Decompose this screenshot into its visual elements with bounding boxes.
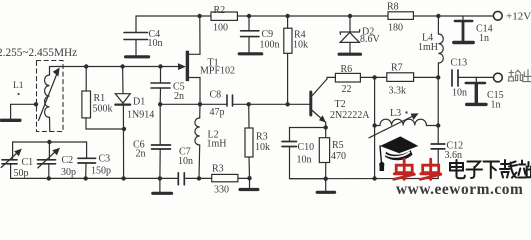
node T1 source / L2 bbox=[198, 102, 202, 106]
node D2 on rail bbox=[348, 14, 352, 18]
resistor R3 10k (vertical) bbox=[245, 104, 270, 178]
svg-text:R8: R8 bbox=[387, 2, 399, 13]
svg-text:22: 22 bbox=[342, 84, 352, 95]
node crystal/C2 top bbox=[47, 140, 51, 144]
capacitor C5 bbox=[151, 67, 185, 105]
svg-text:2n: 2n bbox=[136, 149, 146, 160]
variable inductor L3 bbox=[369, 108, 438, 138]
svg-text:330: 330 bbox=[214, 185, 229, 196]
ground under C6 bbox=[153, 178, 172, 193]
电 bbox=[450, 160, 465, 178]
node D1 bottom bbox=[121, 176, 125, 180]
node R1 top bbox=[84, 64, 88, 68]
svg-text:10n: 10n bbox=[297, 155, 312, 166]
svg-text:1N914: 1N914 bbox=[127, 110, 154, 121]
capacitor C14 bbox=[454, 16, 493, 44]
node R7/L4/C13 junction bbox=[436, 75, 440, 79]
svg-text:500k: 500k bbox=[93, 104, 113, 115]
node C5 top bbox=[158, 64, 162, 68]
node R6/R7 junction bbox=[372, 75, 376, 79]
svg-text:30p: 30p bbox=[61, 167, 76, 178]
svg-text:150p: 150p bbox=[91, 166, 111, 177]
node C9 on rail bbox=[247, 14, 251, 18]
zener diode D2 bbox=[339, 16, 380, 54]
node L3 left bbox=[372, 123, 376, 127]
svg-text:R5: R5 bbox=[332, 140, 344, 151]
terminal output bbox=[494, 73, 503, 82]
svg-text:D1: D1 bbox=[133, 97, 145, 108]
wire gate rail bbox=[61, 66, 178, 68]
svg-text:MPF102: MPF102 bbox=[200, 66, 235, 77]
resistor R5 470 bbox=[319, 138, 346, 163]
node R3/ground bbox=[247, 176, 251, 180]
svg-text:10k: 10k bbox=[293, 40, 308, 51]
node D1 top bbox=[120, 64, 124, 68]
capacitor C9 bbox=[239, 16, 279, 54]
svg-text:2N2222A: 2N2222A bbox=[330, 110, 370, 121]
svg-text:180: 180 bbox=[388, 23, 403, 34]
svg-text:L1: L1 bbox=[13, 81, 24, 91]
node R4 bottom bbox=[285, 102, 289, 106]
wire bottom bus (right) bbox=[290, 178, 439, 180]
下 bbox=[484, 162, 500, 179]
resistor R6 bbox=[335, 64, 360, 95]
svg-text:47p: 47p bbox=[210, 107, 225, 118]
svg-text:1n: 1n bbox=[479, 33, 489, 44]
svg-text:100: 100 bbox=[213, 23, 228, 34]
svg-text:www.eeworm.com: www.eeworm.com bbox=[396, 181, 523, 196]
node C6 bottom bbox=[158, 176, 162, 180]
node T2 emitter / C10 branch bbox=[324, 125, 328, 129]
svg-text:C1: C1 bbox=[22, 157, 34, 168]
node C2 bottom bbox=[47, 176, 51, 180]
svg-text:100n: 100n bbox=[260, 40, 280, 51]
capacitor C4 bbox=[124, 16, 163, 57]
node C5/C6 bbox=[158, 102, 162, 106]
载 bbox=[500, 160, 517, 178]
diode D1 bbox=[115, 67, 154, 179]
svg-text:R6: R6 bbox=[341, 64, 353, 75]
JFET T1 bbox=[178, 16, 235, 104]
node C3 bottom bbox=[84, 176, 88, 180]
watermark 虫虫 (red) hand-drawn bbox=[394, 159, 441, 179]
capacitor C8 bbox=[210, 90, 233, 119]
resistor R2 bbox=[211, 5, 237, 34]
svg-text:C10: C10 bbox=[298, 142, 315, 153]
svg-text:10k: 10k bbox=[255, 142, 270, 153]
watermark graduation cap bbox=[379, 136, 418, 171]
svg-text:C13: C13 bbox=[451, 58, 468, 69]
svg-text:C3: C3 bbox=[99, 154, 111, 165]
svg-text:T2: T2 bbox=[335, 99, 346, 110]
ground at L1 input bbox=[1, 104, 36, 120]
inductor L2 bbox=[195, 104, 227, 178]
svg-text:L3: L3 bbox=[390, 108, 401, 119]
shield box (dashed) around L1 bbox=[37, 61, 64, 132]
wire bottom bus (left) bbox=[11, 177, 177, 179]
svg-text:3.6n: 3.6n bbox=[445, 150, 463, 161]
ground under R5 bbox=[317, 179, 334, 193]
terminal +12V bbox=[493, 11, 502, 20]
站 bbox=[518, 161, 531, 178]
capacitor C6 bbox=[133, 104, 171, 178]
resistor R7 bbox=[387, 63, 438, 97]
svg-text:1n: 1n bbox=[491, 100, 501, 111]
label 输出 (output) hand-drawn bbox=[508, 70, 531, 82]
node at shield box edge bbox=[34, 102, 38, 106]
node L4/C14 on rail bbox=[436, 14, 440, 18]
capacitor C12 bbox=[431, 126, 463, 179]
svg-text:R1: R1 bbox=[94, 93, 106, 104]
BJT T2 bbox=[311, 77, 370, 178]
svg-text:R3: R3 bbox=[212, 164, 224, 175]
svg-text:R7: R7 bbox=[391, 63, 403, 74]
svg-text:10n: 10n bbox=[178, 156, 193, 167]
variable capacitor C2 bbox=[38, 148, 77, 179]
svg-text:+12V: +12V bbox=[506, 11, 531, 23]
svg-text:2.255~2.455MHz: 2.255~2.455MHz bbox=[0, 47, 77, 59]
子 bbox=[467, 162, 483, 179]
node x375 bus bbox=[372, 176, 376, 180]
capacitor C10 branch bbox=[282, 128, 326, 179]
svg-text:C9: C9 bbox=[262, 29, 274, 40]
watermark 电子下载站 (black) hand-drawn bbox=[450, 160, 531, 178]
node L2/R3 join bbox=[197, 176, 201, 180]
svg-text:8.6V: 8.6V bbox=[360, 34, 381, 45]
resistor R4 bbox=[284, 16, 308, 104]
capacitor C13 bbox=[451, 58, 494, 99]
wire C-row top bbox=[13, 142, 87, 160]
svg-text:50p: 50p bbox=[14, 168, 29, 179]
variable inductor L1 in box bbox=[39, 67, 62, 132]
wire mid rail bbox=[160, 103, 226, 105]
wire emitter degeneration vertical bbox=[374, 77, 376, 178]
resistor R3 330 (horizontal) bbox=[212, 164, 238, 196]
ground under R3 bbox=[240, 178, 258, 189]
svg-text:R2: R2 bbox=[214, 5, 226, 16]
capacitor C3 bbox=[78, 154, 111, 179]
node R1/D1 join bbox=[122, 127, 126, 131]
wire collector rail bbox=[360, 76, 386, 78]
svg-text:10n: 10n bbox=[452, 88, 467, 99]
svg-text:1mH: 1mH bbox=[418, 42, 438, 53]
wire L3 right leg / C12 bbox=[437, 77, 439, 125]
svg-text:C8: C8 bbox=[210, 90, 222, 101]
svg-text:10n: 10n bbox=[148, 38, 163, 49]
wire top rail bbox=[136, 15, 493, 17]
resistor R1 bbox=[82, 67, 124, 130]
node T1 drain on rail bbox=[197, 14, 201, 18]
node R3-10k top bbox=[247, 102, 251, 106]
svg-text:470: 470 bbox=[331, 151, 346, 162]
svg-text:C2: C2 bbox=[62, 155, 74, 166]
resistor R8 bbox=[387, 2, 413, 34]
capacitor C7 bbox=[178, 147, 193, 185]
svg-text:1mH: 1mH bbox=[207, 139, 227, 150]
node R4 on rail bbox=[285, 14, 289, 18]
capacitor C15 bbox=[466, 77, 504, 110]
inductor L4 bbox=[418, 16, 443, 77]
svg-text:3.3k: 3.3k bbox=[389, 86, 407, 97]
node L3 right bbox=[436, 123, 440, 127]
svg-text:2n: 2n bbox=[174, 91, 184, 102]
variable capacitor C1 bbox=[1, 149, 33, 179]
node R5 bottom bbox=[324, 177, 328, 181]
svg-text:R3: R3 bbox=[256, 132, 268, 143]
